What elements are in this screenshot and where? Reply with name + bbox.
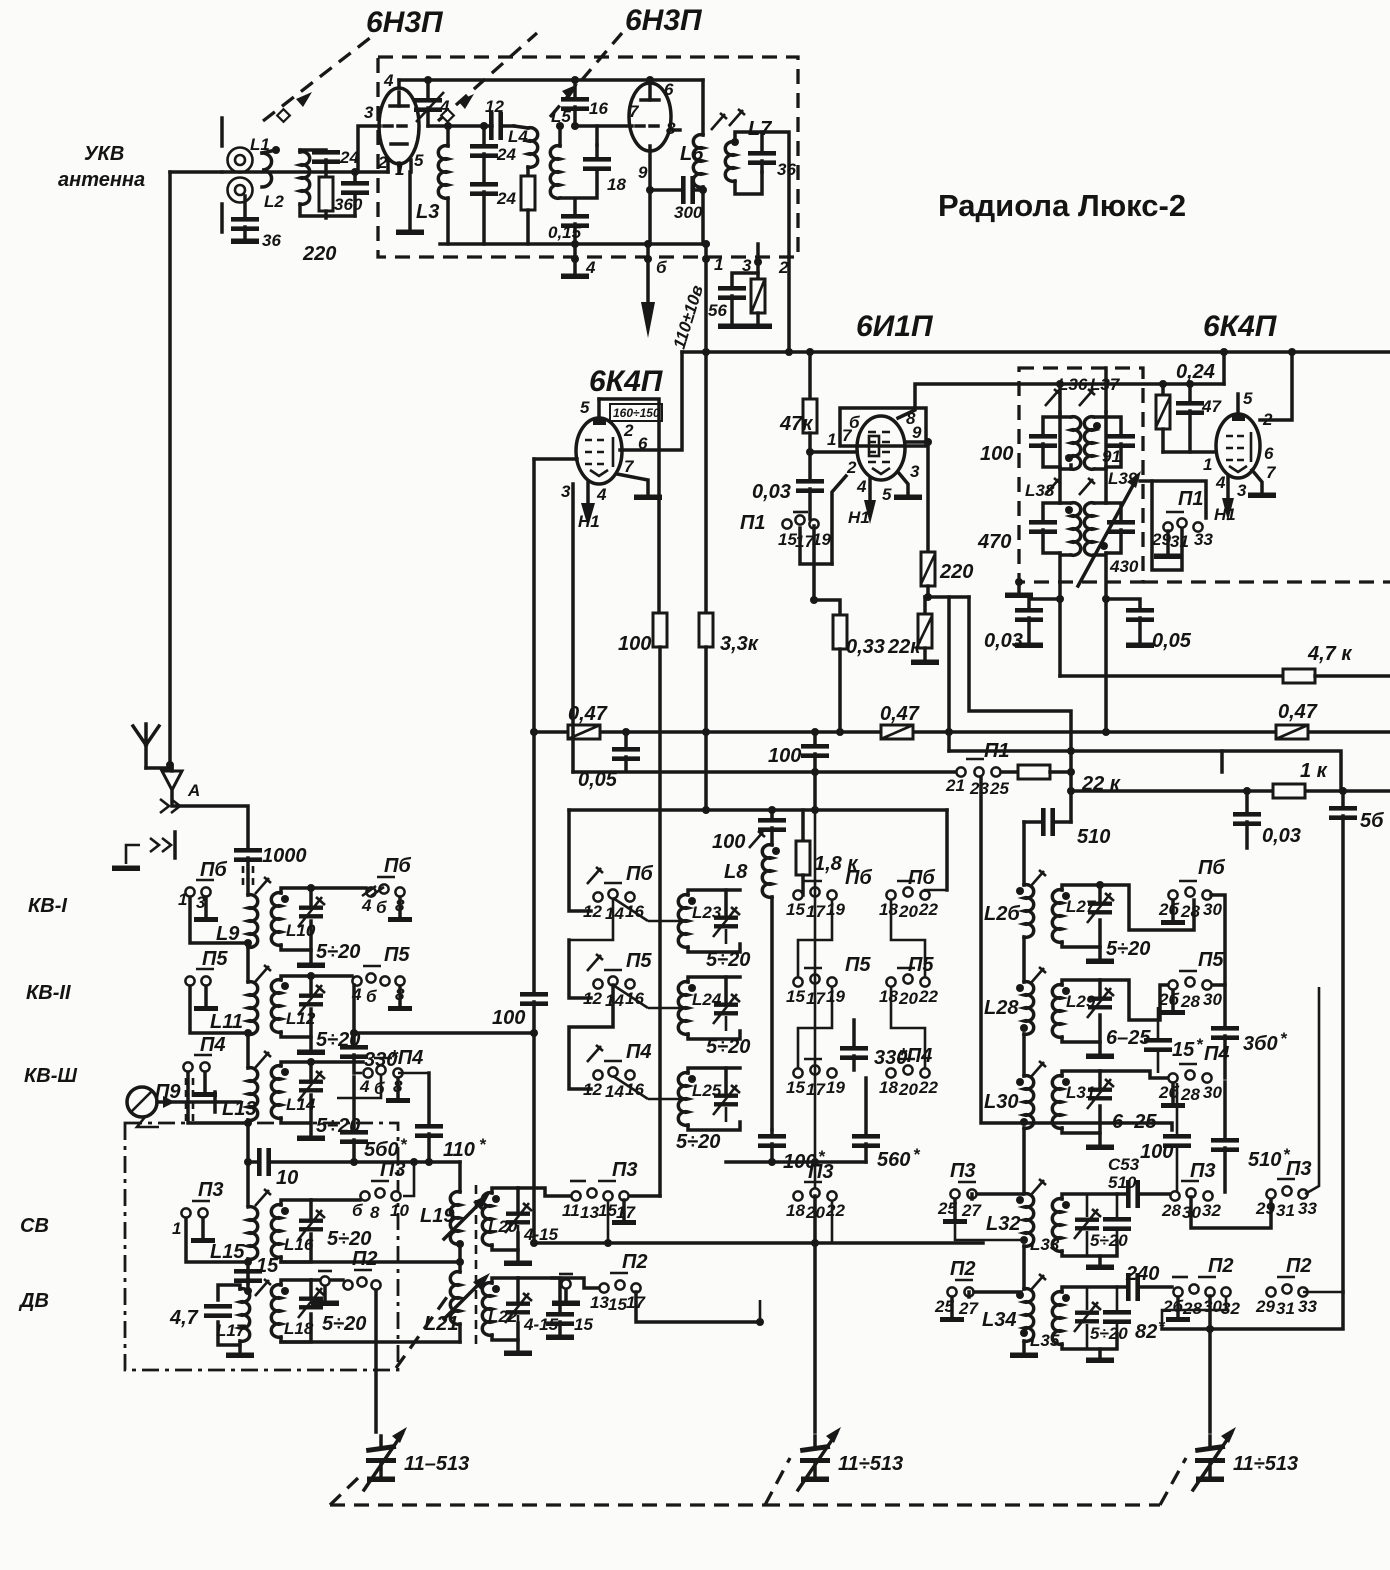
svg-text:*П4: *П4 [899, 1045, 932, 1067]
svg-text:5÷20: 5÷20 [706, 949, 750, 971]
switch П4 left [183, 1055, 212, 1072]
coil L13 [244, 1068, 258, 1205]
svg-text:13: 13 [590, 1293, 609, 1312]
ferrite antenna dash-dot box [125, 1123, 398, 1370]
resistor 22к osc [911, 597, 939, 665]
wire П3B-22 to bus [831, 1200, 834, 1243]
svg-text:П2: П2 [1208, 1255, 1234, 1277]
capacitor 15 osc right [1144, 1007, 1172, 1073]
resistor 0,47 mid [881, 725, 913, 739]
wire П6C-18 link [891, 899, 925, 978]
svg-text:4: 4 [383, 71, 394, 90]
ground П4 left [193, 1072, 217, 1097]
svg-text:2: 2 [623, 421, 634, 440]
ground П2 right block [1166, 1297, 1190, 1322]
svg-text:L19: L19 [420, 1205, 455, 1227]
svg-text:П5: П5 [845, 954, 871, 976]
switch П1 b [956, 759, 1000, 777]
svg-text:Пб: Пб [384, 855, 411, 877]
capacitor 100 osc L8 [758, 810, 786, 845]
svg-text:7: 7 [629, 102, 640, 121]
switch П5 left [185, 969, 214, 986]
ground П2 mid [552, 1274, 580, 1306]
svg-text:2: 2 [377, 153, 388, 172]
wire П2-30 down to gang [374, 1290, 378, 1432]
wire П6-1 to L9 [190, 897, 245, 943]
svg-text:100: 100 [768, 745, 801, 767]
svg-text:П1: П1 [740, 512, 766, 534]
wire L10 to П6 right [311, 886, 366, 890]
svg-text:5: 5 [414, 151, 424, 170]
svg-text:1: 1 [395, 160, 404, 179]
svg-text:УКВ: УКВ [84, 143, 124, 165]
wire 560-110 row to L19 [354, 1160, 460, 1164]
svg-text:10: 10 [390, 1201, 409, 1220]
svg-text:32: 32 [1221, 1299, 1240, 1318]
switch П2 left band [343, 1270, 380, 1290]
svg-text:28: 28 [1180, 1085, 1200, 1104]
wire L14 to П4 right [311, 1060, 363, 1064]
svg-text:П3: П3 [950, 1160, 976, 1182]
svg-text:Пб: Пб [1198, 857, 1225, 879]
svg-text:7: 7 [1266, 463, 1277, 482]
svg-text:19: 19 [826, 900, 845, 919]
capacitor 0,03 IF [1015, 595, 1064, 648]
svg-text:6К4П: 6К4П [1203, 310, 1278, 343]
capacitor 0,33 [833, 615, 847, 736]
svg-text:2б: 2б [1158, 900, 1179, 919]
switch П3 osc B [793, 1182, 836, 1201]
svg-text:19: 19 [826, 1078, 845, 1097]
tank L24 [678, 977, 740, 1039]
capacitor 560 KV3 [340, 1077, 368, 1162]
capacitor 12 [489, 112, 514, 140]
external antenna symbol [133, 724, 172, 768]
V3 heater arrow H1 [864, 478, 876, 524]
ground П5 left [194, 986, 218, 1011]
svg-text:100: 100 [1140, 1141, 1173, 1163]
svg-text:L34: L34 [982, 1309, 1016, 1331]
svg-text:4: 4 [1215, 473, 1226, 492]
svg-text:П3: П3 [1190, 1160, 1216, 1182]
wire П2B-32 drop [1162, 1296, 1226, 1329]
switch П4 osc B [793, 1059, 836, 1078]
anode bus top [399, 78, 703, 82]
ground connector [112, 832, 175, 871]
svg-text:14: 14 [605, 1082, 624, 1101]
tank L10 [271, 884, 325, 950]
tank L20 [482, 1188, 532, 1266]
switch П4 right block [1168, 1064, 1211, 1083]
switch П6 right block [1168, 881, 1211, 900]
capacitor 24 [312, 150, 340, 176]
svg-text:L30: L30 [984, 1091, 1018, 1113]
svg-text:0,03: 0,03 [752, 481, 791, 503]
svg-text:91: 91 [1102, 447, 1121, 466]
svg-text:П5: П5 [1198, 949, 1224, 971]
capacitor 15 ДВ couple [234, 1269, 262, 1289]
switch П3 right25 [950, 1182, 976, 1199]
capacitor 36 to ground [231, 196, 259, 244]
wire L22 to П2 mid [552, 1278, 599, 1288]
resistor 47к [803, 348, 817, 479]
V2 cathode ground [617, 474, 662, 500]
svg-text:110: 110 [443, 1139, 475, 1161]
connector A triangle [162, 768, 182, 790]
svg-text:16: 16 [589, 99, 608, 118]
wire П6-30 down [1211, 895, 1225, 985]
svg-text:4,7 к: 4,7 к [1307, 643, 1352, 665]
capacitor 100 osc pad [758, 1130, 786, 1162]
svg-text:Н1: Н1 [578, 512, 600, 531]
svg-text:11: 11 [562, 1201, 580, 1220]
svg-text:18: 18 [879, 1078, 898, 1097]
variable capacitor C1 11-513 [364, 1427, 407, 1490]
tank L22 [482, 1278, 532, 1356]
coil L11 [244, 982, 258, 1068]
capacitor 100 pad right [1163, 1083, 1191, 1192]
tank L36 [1029, 380, 1081, 469]
svg-text:ДВ: ДВ [18, 1290, 49, 1312]
tank L33 [1052, 1194, 1131, 1270]
svg-text:3,3к: 3,3к [720, 633, 759, 655]
svg-text:КВ-II: КВ-II [26, 982, 71, 1004]
svg-text:36: 36 [777, 160, 796, 179]
ganging dashed link 2 [438, 33, 537, 122]
wire П5-30 chain down [1305, 987, 1319, 1194]
svg-text:А: А [187, 781, 200, 800]
ground П3 right25 [943, 1199, 967, 1224]
svg-text:5÷20: 5÷20 [1090, 1324, 1128, 1343]
switch П6 osc A [593, 883, 634, 902]
wire П2 bottom row [1162, 1292, 1343, 1329]
svg-text:5: 5 [580, 398, 590, 417]
capacitor 510 osc series [1024, 808, 1071, 836]
svg-text:П5: П5 [908, 954, 934, 976]
svg-text:1 к: 1 к [1300, 760, 1328, 782]
wire П2-33 to 56 line [1303, 1291, 1343, 1294]
ground under V1a cathode [396, 172, 424, 235]
pin 4 stem and ground [561, 240, 589, 279]
wire antenna down-lead [168, 172, 172, 770]
switch П4 osc A [593, 1061, 634, 1080]
trimmer capacitor 16 L5 [561, 76, 589, 126]
svg-text:2: 2 [778, 258, 789, 277]
coil L30 [1016, 1076, 1034, 1194]
V4 screen wire [1260, 352, 1292, 420]
wire L23 to П6A [613, 898, 688, 921]
svg-text:8: 8 [370, 1203, 380, 1222]
svg-text:4: 4 [856, 477, 867, 496]
wire 47k to V3 grid [810, 450, 857, 454]
wire П2mid-17 down [636, 1292, 760, 1322]
wire П3-1 to L15 [186, 1218, 245, 1262]
coil L26 [1016, 885, 1034, 982]
wire L18 bottom bus [281, 1340, 460, 1344]
svg-text:3: 3 [561, 482, 571, 501]
svg-text:L28: L28 [984, 997, 1019, 1019]
svg-text:П3: П3 [198, 1179, 224, 1201]
triode V1a 6Н3П [358, 80, 419, 172]
gang link to L21 [396, 1290, 452, 1368]
svg-text:25: 25 [989, 779, 1009, 798]
ground П5 right block [1161, 990, 1185, 1015]
svg-text:12: 12 [583, 1080, 602, 1099]
svg-text:4: 4 [439, 97, 450, 116]
switch П5 osc C [886, 968, 929, 987]
svg-text:П4: П4 [626, 1041, 652, 1063]
svg-text:470: 470 [977, 531, 1011, 553]
svg-text:Пб: Пб [626, 863, 653, 885]
ground П5 right [388, 986, 412, 1011]
svg-text:10: 10 [276, 1167, 298, 1189]
svg-text:27: 27 [961, 1201, 982, 1220]
ground П6 left [194, 897, 218, 922]
svg-text:0,05: 0,05 [1152, 630, 1192, 652]
svg-text:15: 15 [786, 987, 805, 1006]
capacitor 0,05 IF [1102, 595, 1154, 648]
wire L29 to П5 [1100, 980, 1168, 1020]
capacitor 18 [583, 126, 611, 171]
antenna jack J1 [222, 118, 253, 232]
svg-text:21: 21 [945, 776, 965, 795]
svg-text:33: 33 [1194, 530, 1213, 549]
svg-text:30: 30 [1203, 990, 1222, 1009]
wire L38 detector drop [1058, 599, 1062, 676]
svg-text:28: 28 [1182, 1299, 1202, 1318]
svg-text:5÷20: 5÷20 [322, 1313, 366, 1335]
svg-text:L29: L29 [1066, 992, 1096, 1011]
svg-text:5÷20: 5÷20 [1090, 1231, 1128, 1250]
svg-text:L33: L33 [1030, 1235, 1060, 1254]
wire П5-1 to L11 [190, 986, 245, 1033]
svg-text:100: 100 [712, 831, 745, 853]
svg-text:11–513: 11–513 [404, 1453, 469, 1475]
tank L12 [271, 972, 325, 1037]
svg-text:56: 56 [708, 301, 727, 320]
V3 pin9 anode wire [905, 442, 928, 552]
svg-text:6Н3П: 6Н3П [625, 4, 703, 37]
wire osc to П1 [573, 770, 956, 774]
svg-text:31: 31 [1276, 1201, 1295, 1220]
coil L2 [300, 150, 355, 216]
svg-text:L17: L17 [216, 1321, 247, 1340]
svg-text:47: 47 [1201, 397, 1222, 416]
svg-text:9: 9 [912, 423, 922, 442]
svg-text:Пб: Пб [908, 867, 935, 889]
ground П4 right block [1161, 1083, 1185, 1108]
V3 cathode ground [894, 472, 922, 500]
slug mark L9 [255, 877, 271, 894]
osc block left edge [569, 810, 591, 911]
svg-text:L11: L11 [210, 1011, 243, 1033]
V4 cathode ground [1248, 470, 1276, 498]
coil L1 [262, 146, 280, 187]
svg-text:18: 18 [879, 987, 898, 1006]
capacitor 560 osc pad [852, 1078, 880, 1162]
switch П2 mid [599, 1273, 640, 1293]
transformer L19 [444, 1162, 490, 1262]
triode V1b 6Н3П [629, 76, 680, 190]
svg-text:3: 3 [1237, 481, 1247, 500]
resistor 4,7к [1060, 669, 1390, 683]
svg-text:П2: П2 [1286, 1255, 1312, 1277]
П1 c ground [1154, 531, 1182, 559]
svg-text:Н1: Н1 [1214, 505, 1236, 524]
capacitor 100 osc line [801, 728, 829, 810]
svg-text:L7: L7 [748, 118, 772, 140]
svg-text:1: 1 [827, 430, 836, 449]
resistor 0,47 right [1276, 725, 1308, 739]
svg-text:18: 18 [786, 1201, 805, 1220]
core dashes L9 [243, 866, 253, 890]
AGC bus [534, 730, 1390, 734]
svg-text:б: б [374, 1079, 385, 1098]
svg-text:4,7: 4,7 [169, 1307, 199, 1329]
capacitor 330 osc [840, 1020, 868, 1070]
svg-text:П3: П3 [612, 1159, 638, 1181]
svg-text:22: 22 [825, 1201, 845, 1220]
svg-text:*П4: *П4 [390, 1047, 423, 1069]
wire L27 to П6 [1100, 885, 1194, 930]
capacitor 330 КВ [340, 1033, 368, 1073]
tuning gang dashed line [330, 1503, 765, 1506]
V2 heater arrow H1 [581, 482, 595, 527]
svg-text:19: 19 [826, 987, 845, 1006]
svg-text:15: 15 [256, 1255, 279, 1277]
svg-text:1: 1 [1203, 455, 1212, 474]
svg-text:240: 240 [1125, 1263, 1159, 1285]
resistor 220 anode [921, 552, 935, 601]
svg-text:L1: L1 [250, 135, 270, 154]
svg-text:1000: 1000 [262, 845, 307, 867]
svg-text:15: 15 [786, 900, 805, 919]
link L37-L39 [1104, 467, 1108, 503]
svg-text:20: 20 [898, 1080, 918, 1099]
svg-text:П1: П1 [1178, 488, 1204, 510]
svg-text:100: 100 [618, 633, 651, 655]
connector chevrons [160, 799, 180, 813]
wire osc gang3 drop [1208, 1296, 1212, 1432]
pin 6 heater arrow [641, 240, 655, 338]
switch П3 left [181, 1201, 210, 1218]
ground П6 right block [1161, 900, 1185, 925]
heptode V3 6И1П [840, 408, 926, 480]
svg-text:П2: П2 [622, 1251, 648, 1273]
svg-text:36: 36 [262, 231, 281, 250]
resistor 100 AGC [629, 613, 667, 1196]
svg-text:6Н3П: 6Н3П [366, 6, 444, 39]
resistor 360 [319, 177, 333, 218]
tank L16 [271, 1200, 325, 1262]
svg-text:560: 560 [877, 1149, 910, 1171]
osc main bus [534, 1241, 983, 1245]
svg-text:Радиола Люкс-2: Радиола Люкс-2 [938, 188, 1186, 223]
svg-text:П5: П5 [384, 944, 410, 966]
osc block top bus [569, 808, 947, 812]
svg-text:антенна: антенна [58, 169, 145, 191]
svg-text:б: б [656, 258, 667, 277]
capacitor 1000 [234, 848, 262, 895]
switch П3 right block [1170, 1181, 1212, 1201]
svg-text:П2: П2 [352, 1248, 378, 1270]
ground L12 [297, 1037, 325, 1055]
svg-text:22: 22 [918, 987, 938, 1006]
wire grid row [428, 124, 492, 128]
resistor 0,24 [1156, 380, 1170, 452]
svg-text:2б: 2б [1162, 1297, 1183, 1316]
capacitor 56 right [1329, 787, 1357, 1292]
capacitor 240 [1117, 1273, 1172, 1301]
svg-text:1: 1 [172, 1219, 181, 1238]
coil L28 [1016, 982, 1034, 1076]
svg-text:L10: L10 [286, 921, 316, 940]
switch П3 mid-left [360, 1181, 400, 1201]
dashed enclosure UKV unit [378, 57, 798, 257]
ground П3 mid [612, 1200, 636, 1225]
svg-text:100: 100 [980, 443, 1013, 465]
ground П3 left [191, 1218, 215, 1243]
svg-text:б: б [376, 898, 387, 917]
resistor 22к volume line [1001, 765, 1071, 779]
ground L10 [297, 950, 325, 968]
svg-text:1: 1 [178, 890, 187, 909]
shield ground [1005, 578, 1033, 598]
resistor 1,8к [796, 810, 810, 895]
svg-text:12: 12 [485, 97, 504, 116]
svg-text:4: 4 [359, 1077, 370, 1096]
capacitor 0,03 right [1233, 787, 1261, 848]
IF transformer shield box dashed [1019, 368, 1143, 582]
svg-text:11÷513: 11÷513 [838, 1453, 903, 1475]
svg-text:б: б [366, 987, 377, 1006]
wire L39 AVC drop [1104, 599, 1108, 732]
svg-text:14: 14 [605, 904, 624, 923]
wire L16 to П3 mid [311, 1198, 360, 1202]
svg-text:33: 33 [1298, 1199, 1317, 1218]
switch П5 right [352, 966, 404, 986]
svg-text:32: 32 [1202, 1201, 1221, 1220]
svg-text:L20: L20 [488, 1217, 518, 1236]
shield dashed extension [1143, 580, 1390, 583]
svg-text:0,03: 0,03 [984, 630, 1023, 652]
svg-text:0,47: 0,47 [1278, 701, 1318, 723]
resistor 0,47 left [568, 725, 600, 739]
svg-text:L38: L38 [1025, 481, 1055, 500]
resistor 3,3к [699, 348, 713, 810]
pin 3 stem capacitor 56 [718, 244, 762, 329]
svg-text:4: 4 [361, 896, 372, 915]
svg-text:24: 24 [496, 189, 516, 208]
svg-text:3б0: 3б0 [1243, 1033, 1278, 1055]
pentode V2 6К4П [576, 399, 659, 613]
svg-text:СВ: СВ [20, 1215, 49, 1237]
svg-text:22: 22 [918, 1078, 938, 1097]
svg-text:5: 5 [1243, 389, 1253, 408]
wire pin2 to HT bus [785, 257, 793, 356]
svg-text:17: 17 [616, 1203, 636, 1222]
ground П2 left band [311, 1271, 339, 1306]
wire osc grid drop [969, 597, 1071, 822]
svg-text:1: 1 [714, 255, 723, 274]
svg-text:33: 33 [1298, 1297, 1317, 1316]
ground П6 right [388, 897, 412, 922]
wire link 751-791 [1220, 751, 1224, 772]
svg-text:47к: 47к [779, 413, 813, 435]
switch П4 osc C [886, 1059, 929, 1078]
switch П6 left [185, 880, 214, 897]
svg-text:Пб: Пб [200, 859, 227, 881]
